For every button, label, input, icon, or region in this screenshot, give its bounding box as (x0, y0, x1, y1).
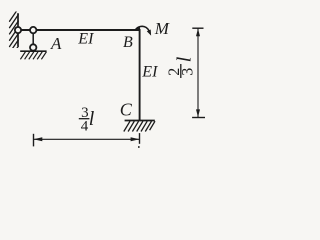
svg-text:C: C (120, 100, 133, 120)
svg-text:B: B (123, 34, 133, 51)
svg-text:EI: EI (77, 30, 94, 47)
svg-text:l: l (174, 56, 196, 62)
svg-text:3: 3 (180, 68, 197, 76)
svg-text:EI: EI (141, 63, 158, 80)
svg-text:A: A (50, 34, 62, 53)
svg-text:4: 4 (81, 119, 89, 135)
svg-text:l: l (89, 108, 95, 130)
svg-text:M: M (154, 19, 170, 38)
